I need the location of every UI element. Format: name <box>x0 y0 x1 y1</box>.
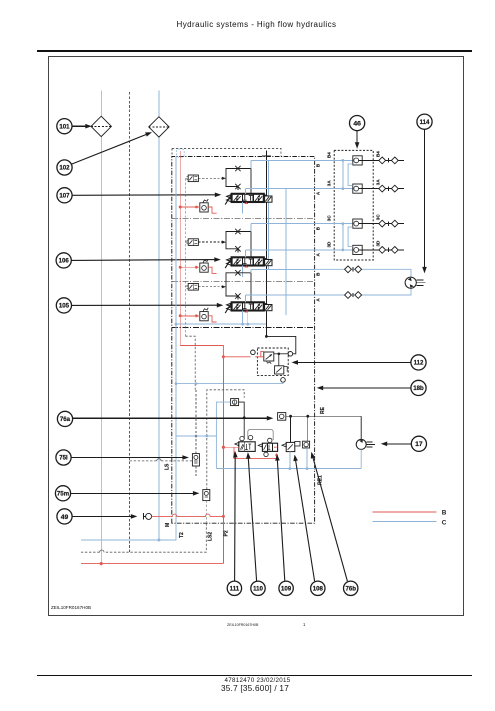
directional spool valve section 3 <box>225 303 231 313</box>
svg-text:M: M <box>165 523 171 527</box>
orifice block section 3 <box>226 273 238 296</box>
svg-text:105: 105 <box>59 303 70 310</box>
wire blue to check square <box>216 402 230 469</box>
wire blue return stub section 1 <box>242 202 244 213</box>
wire blue return stub section 2 <box>242 266 244 277</box>
svg-text:111: 111 <box>230 585 240 592</box>
callout 46 with leader <box>350 116 365 131</box>
solenoid valve 109 <box>262 443 277 451</box>
top rule <box>37 50 472 51</box>
wire black main pressure trunk <box>265 156 267 337</box>
wire gray pilot loop <box>248 430 273 440</box>
callout 107 with leader <box>57 188 72 203</box>
quick coupler 3A <box>315 188 353 190</box>
port P1 marker blue dashed box <box>177 149 185 157</box>
wire red into 112 <box>223 356 250 358</box>
figure id bottom-left <box>51 605 91 610</box>
wire blue pilot header <box>176 435 216 437</box>
quick coupler 3C <box>315 223 353 225</box>
wire gray LS branch <box>130 460 157 462</box>
manifold dash-dot boundary box <box>172 157 315 524</box>
wire gray LS pilot dashed <box>184 178 186 336</box>
svg-text:76a: 76a <box>60 416 71 423</box>
svg-text:108: 108 <box>313 585 324 592</box>
callout 105 with leader <box>56 298 71 313</box>
manifold section separator 1 <box>172 218 315 220</box>
svg-text:107: 107 <box>59 192 70 199</box>
bottom rule <box>37 675 472 676</box>
port RE square <box>278 413 286 421</box>
breakaway coupling pair B4 <box>362 159 404 161</box>
filter 102 <box>149 117 169 137</box>
LS2 orifice <box>203 490 210 501</box>
hydraulic motor 114 <box>405 277 416 288</box>
wire red port P2 <box>81 563 223 565</box>
work port lines section 3 <box>250 269 252 273</box>
callout 75m with leader <box>55 486 70 501</box>
breakaway coupling pair motor A <box>345 292 352 299</box>
svg-text:B: B <box>442 509 447 516</box>
valve assembly 112 dashed box <box>257 348 288 376</box>
callout 114 with leader <box>417 114 432 129</box>
quick coupler B4 <box>315 159 353 161</box>
svg-text:106: 106 <box>59 258 70 265</box>
schematic frame <box>48 56 464 616</box>
svg-text:110: 110 <box>253 585 263 592</box>
svg-text:112: 112 <box>414 360 424 367</box>
callout 108 with leader <box>311 581 325 595</box>
svg-text:B: B <box>316 163 321 167</box>
wire red gauge line M <box>152 514 224 516</box>
svg-text:75m: 75m <box>57 490 70 497</box>
orifice block section 2 <box>226 232 238 249</box>
svg-text:C: C <box>442 519 447 526</box>
svg-text:RE: RE <box>320 406 326 414</box>
svg-text:B: B <box>316 226 321 230</box>
wire blue long work line 2 <box>267 161 269 270</box>
svg-text:B4: B4 <box>375 151 380 157</box>
wire blue motor line B <box>315 269 411 277</box>
check valve RE square <box>231 399 239 406</box>
page title <box>9 20 495 29</box>
wire gray port LS2 <box>104 523 206 552</box>
svg-text:A: A <box>316 191 321 195</box>
svg-text:101: 101 <box>59 123 70 130</box>
callout 49 with leader <box>57 509 72 524</box>
callout 102 with leader <box>57 160 72 175</box>
legend line B red <box>373 511 437 513</box>
callout 109 with leader <box>279 581 293 595</box>
wire blue long work line <box>285 189 287 316</box>
wire black RE line <box>286 415 361 417</box>
svg-text:3C: 3C <box>375 214 380 221</box>
svg-text:3A: 3A <box>375 179 380 186</box>
wire blue valve3 return drops <box>242 311 244 325</box>
filter 101 <box>91 116 111 136</box>
orifice check 76b <box>303 441 310 448</box>
wire blue coupler link 3C-3D <box>342 224 344 250</box>
callout 75l with leader <box>56 450 71 465</box>
work port lines section 2 <box>250 224 252 232</box>
wire red pump supply vertical <box>100 90 102 116</box>
hydraulic motor 17 <box>356 439 366 449</box>
port circle 112 right <box>288 352 293 357</box>
breakaway coupling pair 3A <box>362 188 404 190</box>
wire black check to valve <box>239 402 245 439</box>
solenoid valve 111-110 <box>239 442 255 452</box>
pilot solenoid valve section 1 <box>188 175 198 182</box>
pressure compensator section 3 <box>200 312 208 321</box>
callout 110 with leader <box>251 581 265 595</box>
pressure compensator section 2 <box>200 263 208 272</box>
svg-text:T2: T2 <box>179 532 185 538</box>
svg-text:18b: 18b <box>413 385 424 392</box>
wire gray LS2 internal <box>205 501 207 524</box>
svg-text:46: 46 <box>353 121 361 128</box>
callout 106 with leader <box>56 253 71 268</box>
wire blue tank return vertical <box>158 90 160 116</box>
directional spool valve section 1 <box>225 194 231 204</box>
manifold outer dotted box <box>172 149 281 157</box>
breakaway coupling pair 3D <box>362 249 404 251</box>
LS check valve <box>192 454 199 466</box>
wire blue RE1 bus <box>216 468 361 470</box>
pilot solenoid valve section 3 <box>188 284 198 291</box>
breakaway coupling pair motor B <box>345 266 352 273</box>
reducing valve 112a <box>264 352 274 361</box>
relief valve 112b <box>275 366 284 374</box>
coupler block dashed box <box>334 150 373 260</box>
svg-text:75l: 75l <box>59 455 68 462</box>
footer doc number <box>3 677 495 684</box>
svg-text:76b: 76b <box>345 585 356 592</box>
wire black drops to RE <box>290 416 292 442</box>
caption below frame <box>227 623 258 627</box>
wire blue 112 drain <box>176 382 283 383</box>
port circle 112 left <box>251 350 256 355</box>
svg-text:3A: 3A <box>326 180 331 187</box>
wire blue internal return T <box>175 157 177 524</box>
svg-text:49: 49 <box>61 514 69 521</box>
svg-text:B4: B4 <box>326 152 331 158</box>
wire blue motor line A <box>315 288 411 295</box>
wire red pilot supply <box>223 446 238 448</box>
svg-text:LS: LS <box>165 463 171 470</box>
svg-text:3C: 3C <box>326 215 331 222</box>
wire red internal supply <box>179 151 181 346</box>
orifice block section 1 <box>226 169 238 187</box>
callout 18b with leader <box>411 380 426 395</box>
callout 17 with leader <box>411 436 426 451</box>
footer page number <box>2 684 495 693</box>
callout 112 with leader <box>411 355 426 370</box>
work port lines section 1 <box>250 161 252 169</box>
svg-text:17: 17 <box>415 441 423 448</box>
svg-text:114: 114 <box>420 119 430 126</box>
wire blue coupler link B4-3A <box>342 160 344 188</box>
svg-text:102: 102 <box>59 165 70 172</box>
wire blue motor drain <box>360 449 362 468</box>
directional spool valve section 2 <box>225 258 231 268</box>
manifold section separator 2 <box>172 280 315 282</box>
wire black 112 supply <box>266 336 295 353</box>
wire red P2 trunk <box>222 357 224 564</box>
wire gray LS drop <box>195 390 197 454</box>
pressure compensator section 1 <box>200 203 208 212</box>
port circle 112 bottom <box>281 378 286 383</box>
quick coupler 3D <box>315 249 353 251</box>
wire blue return header <box>176 323 266 325</box>
callout 101 with leader <box>57 119 72 134</box>
manifold section separator 3 <box>172 326 315 328</box>
svg-text:LS2: LS2 <box>208 532 214 541</box>
legend line C blue <box>373 520 437 522</box>
callout 111 with leader <box>227 581 241 595</box>
svg-text:109: 109 <box>281 585 292 592</box>
svg-text:A: A <box>316 298 321 302</box>
pilot block dashed box <box>207 390 244 490</box>
callout 76a with leader <box>57 411 72 426</box>
svg-text:B: B <box>316 272 321 276</box>
svg-text:A: A <box>316 253 321 257</box>
svg-text:3D: 3D <box>375 240 380 247</box>
wire gray LS dashed vertical <box>129 92 131 552</box>
breakaway coupling pair 3C <box>362 223 404 225</box>
pilot solenoid valve section 2 <box>188 239 198 246</box>
wire blue port T2 <box>81 523 176 540</box>
svg-text:P2: P2 <box>224 530 230 536</box>
plug gauge port M <box>143 513 145 519</box>
callout 76b with leader <box>344 581 358 595</box>
relief valve 108 <box>286 442 295 451</box>
svg-text:3D: 3D <box>326 241 331 248</box>
